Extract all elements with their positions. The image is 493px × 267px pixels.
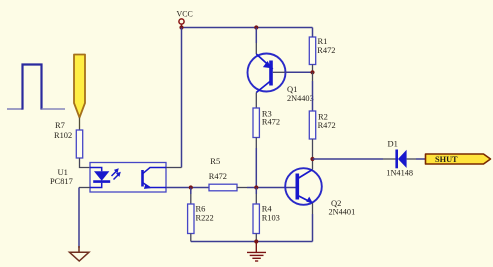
wire R4 to bottom rail	[255, 234, 257, 242]
resistor R4	[253, 204, 259, 234]
wire D1 anode to SHUT port	[407, 158, 416, 160]
svg-text:Q1: Q1	[287, 84, 297, 94]
wire rail to R1	[312, 28, 314, 38]
transistor Q2 emitter arrowhead (NPN)	[306, 197, 313, 204]
opto phototransistor collector	[143, 168, 167, 174]
resistor R3	[253, 108, 259, 138]
svg-text:D1: D1	[388, 138, 398, 148]
port SHUT	[426, 154, 491, 164]
opto LED cathode bar	[93, 180, 110, 183]
svg-text:R472: R472	[209, 172, 227, 181]
transistor Q1 collector diagonal	[256, 81, 270, 93]
resistor R1	[309, 37, 315, 65]
wire R5 to Q2 base	[237, 187, 247, 189]
transistor Q1 circle	[248, 54, 286, 92]
opto emitter arrowhead	[144, 185, 151, 189]
opto light arrow 2	[114, 172, 121, 180]
junction R6 / opto emitter	[189, 185, 193, 189]
resistor R7	[76, 130, 82, 158]
VCC power port	[177, 9, 193, 27]
junction R2/Q2/D1	[310, 157, 314, 161]
wire Q1 base to R1/R2 junction	[273, 71, 284, 73]
svg-text:R222: R222	[196, 213, 214, 222]
ground GND (power ground bars)	[247, 242, 266, 262]
wire R2 to D1 junction	[312, 139, 314, 159]
wire junction to R4	[255, 188, 257, 195]
diode D1 triangle	[398, 150, 407, 168]
svg-text:R4: R4	[262, 204, 273, 214]
opto LED triangle	[94, 171, 109, 181]
wire opto emitter row to R5	[166, 187, 209, 189]
resistor R2	[309, 111, 315, 139]
pulse waveform annotation	[7, 65, 65, 110]
wire junction to R2	[312, 72, 314, 81]
bottom rail wire	[191, 241, 313, 243]
opto LED cathode lead	[90, 183, 102, 188]
wire opto cathode to ground	[79, 187, 90, 189]
transistor Q1 emitter diagonal	[256, 54, 273, 69]
opto light arrow 1	[112, 168, 119, 176]
svg-text:R6: R6	[196, 204, 206, 214]
svg-text:R5: R5	[210, 156, 220, 166]
svg-text:U1: U1	[58, 167, 68, 177]
transistor Q2 circle	[285, 168, 322, 205]
opto U1 body	[90, 163, 166, 193]
wire R6 to bottom rail	[190, 234, 192, 242]
wire R1 to junction	[312, 65, 314, 73]
wire VCC top rail	[182, 27, 313, 29]
probe TP (yellow test point)	[74, 55, 85, 118]
svg-text:VCC: VCC	[177, 9, 193, 18]
wire Q2 collector up to junction	[312, 159, 314, 170]
transistor Q2 collector diagonal	[298, 170, 313, 179]
svg-text:R472: R472	[317, 46, 335, 55]
diode D1 cathode bar	[395, 150, 398, 169]
transistor Q1 base bar	[269, 61, 273, 86]
opto LED anode lead	[90, 168, 102, 172]
wire R7 to opto anode	[80, 158, 91, 168]
wire VCC column down to opto collector	[181, 28, 183, 168]
junction R3/R4/mid row	[254, 185, 258, 189]
transistor Q2 base bar	[295, 174, 299, 200]
wire junction to R6	[190, 188, 192, 195]
opto phototransistor base bar	[141, 170, 144, 187]
wire Q1 collector to R3	[255, 93, 257, 109]
junction at VCC	[179, 25, 183, 29]
wire R3 to mid row	[255, 138, 257, 149]
wire junction to D1 cathode	[313, 158, 384, 160]
svg-text:2N4401: 2N4401	[329, 207, 356, 216]
svg-text:R2: R2	[318, 111, 328, 121]
opto phototransistor emitter	[143, 183, 167, 188]
wire probe to R7	[79, 118, 81, 131]
svg-text:2N4403: 2N4403	[287, 94, 314, 103]
junction top rail / Q1 emitter	[254, 25, 258, 29]
svg-text:R103: R103	[262, 213, 280, 222]
junction R1/R2/Q1 base	[310, 70, 314, 74]
svg-text:R1: R1	[318, 36, 328, 46]
svg-text:R102: R102	[54, 131, 72, 140]
transistor Q2 emitter diagonal	[298, 196, 313, 204]
svg-text:R472: R472	[318, 121, 336, 130]
resistor R5 (horizontal)	[209, 184, 237, 191]
svg-text:PC817: PC817	[50, 177, 73, 186]
ground GND (signal ground triangle)	[70, 246, 89, 261]
junction bottom rail / ground	[254, 239, 258, 243]
svg-text:1N4148: 1N4148	[386, 169, 413, 178]
svg-text:SHUT: SHUT	[435, 155, 458, 164]
wire Q1 emitter pin	[255, 28, 257, 44]
svg-text:R472: R472	[262, 118, 280, 127]
wire Q2 emitter down to bottom rail	[312, 203, 314, 214]
transistor Q1 emitter arrowhead (PNP)	[263, 61, 272, 68]
svg-text:R7: R7	[55, 120, 65, 130]
resistor R6	[188, 204, 194, 234]
